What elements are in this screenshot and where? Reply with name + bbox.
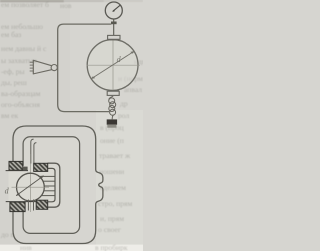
- sphere horizontal centerline: [87, 64, 141, 66]
- svg-text:ого-объясня: ого-объясня: [1, 100, 40, 109]
- gland top-left base line: [6, 170, 28, 172]
- gauge stem: [113, 19, 115, 36]
- svg-text:еделяем: еделяем: [100, 183, 126, 192]
- svg-text:вм ек: вм ек: [1, 111, 19, 120]
- sphere top flange: [108, 35, 120, 39]
- svg-text:ва-образцам: ва-образцам: [1, 89, 41, 98]
- svg-text:ем баз: ем баз: [1, 30, 21, 39]
- ball vertical centerline: [30, 154, 32, 212]
- svg-text:стро, прям: стро, прям: [98, 199, 133, 208]
- svg-text:в пробирк: в пробирк: [95, 243, 128, 251]
- gland top-left ledge: [23, 167, 28, 171]
- sphere bottom flange: [107, 91, 119, 95]
- svg-text:и, прям: и, прям: [100, 214, 124, 223]
- funnel F: [30, 60, 58, 74]
- fins between ball and bypass: [40, 176, 55, 195]
- pressure gauge G: [105, 2, 122, 19]
- sphere vessel S: [88, 40, 138, 90]
- ball chamber light interior: [9, 166, 56, 206]
- coiled capillary below sphere: [109, 96, 116, 119]
- bypass bracket inner: [44, 168, 55, 201]
- gland bottom-left block: [10, 202, 25, 212]
- tube from gauge tee to funnel riser: [58, 24, 112, 112]
- chamber neck upper tubes: [31, 139, 37, 163]
- bottom white margin strip: [0, 245, 143, 251]
- svg-text:нов: нов: [60, 1, 72, 10]
- loop hole light interior: [24, 138, 79, 233]
- paper background: [0, 0, 143, 251]
- gland top-right block: [34, 163, 48, 171]
- svg-text:др: др: [120, 99, 128, 108]
- faint bleed-through text: [1, 0, 146, 251]
- svg-text:травает ж: травает ж: [99, 151, 131, 160]
- chamber neck lower tubes: [28, 200, 33, 211]
- capillary end block: [107, 119, 117, 124]
- ball B: [17, 173, 45, 201]
- svg-text:-еф, ры: -еф, ры: [1, 67, 25, 76]
- gland top-left block: [9, 161, 23, 170]
- svg-text:ы захватыв: ы захватыв: [1, 56, 37, 65]
- svg-text:ем позволяет б: ем позволяет б: [1, 0, 49, 9]
- sphere diameter line: [91, 51, 134, 79]
- svg-text:нем давны й с: нем давны й с: [1, 44, 47, 53]
- svg-text:нив: нив: [20, 243, 32, 251]
- gland bottom-right block: [36, 200, 48, 209]
- gland bottom-left top line: [6, 201, 36, 203]
- loop inner wall: [23, 137, 80, 234]
- ball diameter arrow: [16, 176, 43, 196]
- svg-text:оние (п: оние (п: [100, 136, 124, 145]
- gauge union fitting: [111, 22, 117, 25]
- svg-text:рол: рол: [118, 111, 129, 120]
- sphere vertical centerline: [112, 39, 114, 92]
- bypass bracket outer: [44, 163, 60, 207]
- svg-text:о своег: о своег: [98, 225, 121, 234]
- svg-text:ды, реш: ды, реш: [1, 78, 27, 87]
- ball horizontal centerline: [12, 186, 50, 188]
- top edge smudge: [0, 0, 64, 2]
- loop outer wall with right union bulge: [13, 126, 103, 244]
